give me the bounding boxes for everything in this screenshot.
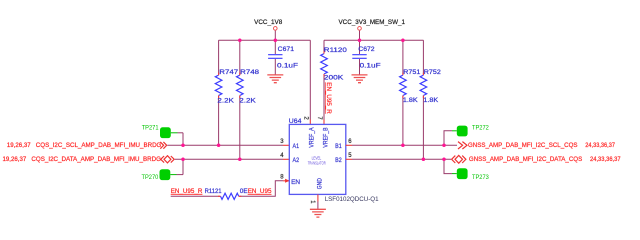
resistor R748	[237, 40, 260, 159]
svg-text:A2: A2	[293, 157, 300, 164]
svg-text:R751: R751	[403, 69, 420, 76]
svg-text:24,33,36,37: 24,33,36,37	[585, 142, 615, 149]
svg-text:VREF_B: VREF_B	[322, 127, 329, 148]
pin 5 stub	[346, 158, 352, 160]
test point TP271	[142, 125, 183, 146]
ground under C671	[267, 75, 283, 83]
net alias EN_U95_R	[171, 188, 203, 195]
wire B2 row	[352, 158, 451, 160]
svg-text:U64: U64	[289, 118, 302, 125]
svg-text:VCC_3V3_MEM_SW_1: VCC_3V3_MEM_SW_1	[339, 19, 406, 26]
power symbol VCC_3V3_MEM_SW_1	[339, 19, 406, 40]
svg-text:A1: A1	[293, 143, 300, 150]
svg-text:VCC_1V8: VCC_1V8	[254, 19, 283, 26]
svg-text:GNSS_AMP_DAB_MFI_I2C_SCL_CQS: GNSS_AMP_DAB_MFI_I2C_SCL_CQS	[468, 142, 578, 149]
svg-text:VREF_A: VREF_A	[308, 127, 315, 148]
resistor pin stubs (red)	[218, 51, 423, 196]
svg-text:TP272: TP272	[472, 125, 489, 132]
svg-text:EN_U95_R: EN_U95_R	[325, 82, 332, 114]
pin 4 stub	[283, 158, 289, 160]
test point TP273	[444, 159, 489, 181]
wire VREF_A to rail	[309, 40, 311, 124]
svg-text:R752: R752	[424, 69, 441, 76]
svg-text:0.1uF: 0.1uF	[360, 63, 381, 70]
node R751/rail junction	[401, 38, 405, 42]
node VCC_1V8/C671 rail junction	[274, 38, 278, 42]
svg-text:TP271: TP271	[142, 125, 159, 132]
svg-text:LSF0102QDCU-Q1: LSF0102QDCU-Q1	[325, 196, 379, 203]
svg-text:2.2K: 2.2K	[217, 97, 234, 104]
node dot TP273/DATA	[442, 158, 446, 162]
node dot R751/SCL	[401, 144, 405, 148]
svg-text:CQS_I2C_DATA_AMP_DAB_MFI_IMU_B: CQS_I2C_DATA_AMP_DAB_MFI_IMU_BRDG	[31, 156, 161, 163]
svg-text:19,26,37: 19,26,37	[3, 156, 27, 163]
svg-text:EN_U95: EN_U95	[248, 188, 272, 195]
svg-text:GND: GND	[316, 178, 323, 189]
svg-text:TP273: TP273	[472, 174, 489, 181]
wire DATA row left	[175, 158, 283, 160]
svg-text:24,33,36,37: 24,33,36,37	[590, 156, 621, 163]
op-amp U64 body (level translator IC)	[289, 118, 346, 194]
svg-text:1.8K: 1.8K	[423, 97, 438, 104]
svg-text:C671: C671	[278, 46, 295, 53]
resistor R1121	[205, 188, 249, 199]
node dot R748/DATA	[238, 158, 242, 162]
wire SCL row left	[167, 144, 283, 146]
wire B1 row	[352, 144, 457, 146]
svg-text:CQS_I2C_SCL_AMP_DAB_MFI_IMU_BR: CQS_I2C_SCL_AMP_DAB_MFI_IMU_BRDG	[36, 142, 162, 149]
node dot TP271/SCL	[181, 144, 185, 148]
off-page connector SCL right	[458, 142, 467, 149]
svg-text:2.2K: 2.2K	[239, 97, 256, 104]
off-page connector DATA left	[161, 156, 175, 163]
svg-text:EN_U95_R: EN_U95_R	[171, 188, 203, 195]
svg-text:B1: B1	[335, 143, 342, 150]
wire EN row right segment	[239, 181, 283, 197]
node R748/rail junction	[238, 38, 242, 42]
test point TP272	[444, 125, 489, 146]
node dot R752/DATA	[422, 158, 426, 162]
wire left VCC rail	[219, 39, 311, 41]
capacitor C671	[268, 40, 298, 75]
node dot TP270/DATA	[181, 158, 185, 162]
pin 6 stub	[346, 144, 352, 146]
capacitor C672	[352, 40, 380, 75]
power symbol VCC_1V8	[254, 19, 283, 40]
wire EN row left segment	[171, 195, 221, 197]
wire right VCC rail	[324, 39, 423, 41]
test point TP270	[142, 159, 184, 181]
off-page connector DATA right	[452, 155, 466, 163]
off-page connector SCL left	[160, 142, 166, 149]
ground under U64	[310, 209, 326, 217]
resistor R747	[215, 40, 238, 145]
svg-text:R748: R748	[240, 69, 259, 76]
svg-text:R1120: R1120	[324, 47, 347, 54]
pin 3 stub	[283, 144, 289, 146]
node dot R747/SCL	[217, 144, 221, 148]
pin 8 stub arrow	[283, 179, 290, 183]
wire GND pin to ground	[317, 194, 319, 209]
wire VREF_B / net EN_U95_R vertical	[324, 74, 332, 124]
svg-text:TRANSLATOR: TRANSLATOR	[308, 161, 326, 166]
svg-text:B2: B2	[335, 157, 342, 164]
svg-text:EN: EN	[291, 179, 300, 186]
svg-text:200K: 200K	[324, 75, 344, 82]
ground under C672	[352, 75, 368, 83]
svg-text:19,26,37: 19,26,37	[7, 142, 31, 149]
resistor R751	[400, 40, 421, 145]
net alias EN_U95	[248, 188, 272, 195]
svg-text:GNSS_AMP_DAB_MFI_I2C_DATA_CQS: GNSS_AMP_DAB_MFI_I2C_DATA_CQS	[469, 156, 583, 163]
svg-text:TP270: TP270	[142, 174, 159, 181]
svg-text:R1121: R1121	[205, 188, 222, 195]
resistor R752	[420, 40, 441, 159]
svg-text:R747: R747	[219, 69, 238, 76]
svg-text:0.1uF: 0.1uF	[277, 63, 298, 70]
svg-text:1.8K: 1.8K	[403, 97, 418, 104]
node dot TP272/SCL	[442, 144, 446, 148]
resistor R1120	[321, 40, 347, 81]
node VCC_3V3/C672 rail junction	[358, 38, 362, 42]
svg-text:C672: C672	[358, 46, 375, 53]
